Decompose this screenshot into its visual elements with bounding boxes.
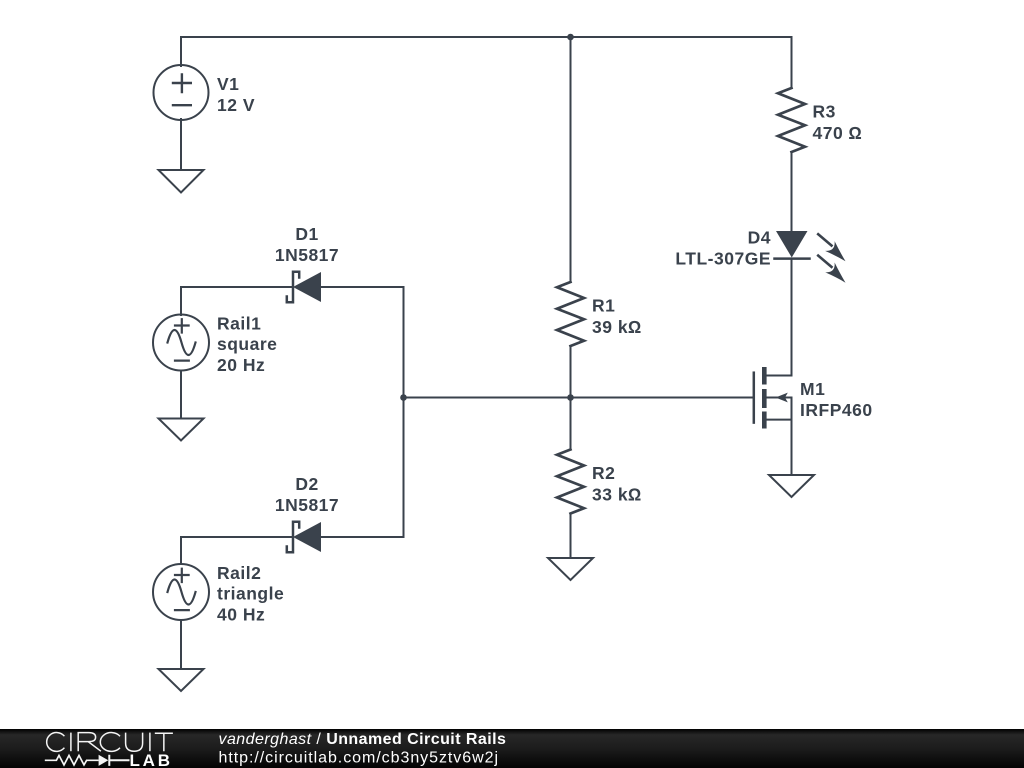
wire LED cathode to M1 drain	[767, 260, 792, 376]
label Rail1 value	[217, 314, 277, 376]
resistor R3	[778, 88, 805, 152]
label M1 value	[800, 379, 873, 420]
wire gate rail from node A to M1 gate	[404, 397, 754, 399]
label V1 value	[217, 74, 255, 115]
svg-text:vanderghast / Unnamed Circuit: vanderghast / Unnamed Circuit Rails	[219, 731, 507, 748]
svg-text:12 V: 12 V	[217, 95, 255, 115]
diode D1 (schottky)	[287, 272, 321, 302]
label R2 value	[592, 463, 642, 505]
diode D2 (schottky)	[287, 522, 321, 552]
label Rail2 value	[217, 563, 284, 625]
svg-text:D1: D1	[295, 224, 318, 244]
svg-text:39 kΩ: 39 kΩ	[592, 317, 642, 337]
ground below V1	[159, 170, 204, 193]
resistor R2	[557, 450, 584, 514]
svg-text:D4: D4	[748, 227, 771, 247]
svg-text:33 kΩ: 33 kΩ	[592, 485, 642, 505]
voltage source Rail1	[153, 315, 209, 371]
label D1 value	[275, 224, 339, 265]
svg-text:triangle: triangle	[217, 584, 284, 604]
wire R3 top lead	[791, 37, 793, 88]
svg-text:M1: M1	[800, 379, 825, 399]
svg-text:IRFP460: IRFP460	[800, 400, 873, 420]
svg-text:40 Hz: 40 Hz	[217, 605, 265, 625]
node junction top rail / R1	[567, 34, 574, 41]
wire vertical D1/D2 to gate rail	[403, 287, 405, 537]
wire R2 bottom lead	[570, 514, 572, 559]
svg-text:square: square	[217, 334, 277, 354]
svg-text:R2: R2	[592, 463, 615, 483]
node junction gate rail / R1 R2	[567, 394, 574, 401]
label R3 value	[813, 102, 863, 144]
svg-text:470 Ω: 470 Ω	[813, 123, 863, 143]
wire R1 bottom lead	[570, 346, 572, 398]
svg-text:20 Hz: 20 Hz	[217, 355, 265, 375]
svg-text:1N5817: 1N5817	[275, 495, 339, 515]
wire D2 cathode to node A	[321, 536, 404, 538]
wire Rail2 bottom lead	[180, 620, 182, 669]
svg-text:V1: V1	[217, 74, 239, 94]
wire top rail from V1 to R3	[181, 36, 792, 38]
wire Rail1 to D1 anode	[181, 286, 293, 288]
svg-text:Rail2: Rail2	[217, 563, 261, 583]
ground below R2	[548, 558, 593, 580]
label R1 value	[592, 296, 642, 338]
svg-text:LTL-307GE: LTL-307GE	[675, 248, 771, 268]
wire V1 top lead	[180, 37, 182, 66]
ground below Rail2	[159, 669, 204, 691]
svg-text:D2: D2	[295, 474, 318, 494]
svg-text:LAB: LAB	[130, 751, 173, 768]
wire V1 bottom lead	[180, 119, 182, 170]
label D4 value	[675, 227, 771, 268]
voltage source Rail2	[153, 564, 209, 620]
wire Rail2 top lead	[180, 537, 182, 564]
wire Rail1 bottom lead	[180, 371, 182, 419]
wire R1 top lead	[570, 37, 572, 282]
svg-text:1N5817: 1N5817	[275, 245, 339, 265]
CircuitLab logo diode	[99, 755, 109, 766]
label D2 value	[275, 474, 339, 515]
svg-text:Rail1: Rail1	[217, 314, 261, 334]
svg-text:R3: R3	[813, 102, 836, 122]
voltage source V1	[154, 65, 209, 120]
wire D1 cathode to node A	[321, 286, 404, 288]
wire Rail1 top lead	[180, 287, 182, 315]
svg-text:http://circuitlab.com/cb3ny5zt: http://circuitlab.com/cb3ny5ztv6w2j	[219, 750, 499, 767]
svg-text:R1: R1	[592, 296, 615, 316]
transistor M1	[754, 367, 792, 475]
wire Rail2 to D2 anode	[181, 536, 293, 538]
CircuitLab logo resistor zigzag	[45, 755, 99, 765]
wire R3 bottom lead	[791, 152, 793, 232]
CircuitLab logo wordmark CIRCUIT (hand drawn thin letters)	[47, 733, 173, 752]
ground below Rail1	[159, 419, 204, 441]
resistor R1	[557, 282, 584, 346]
wire R2 top lead	[570, 398, 572, 450]
LED D4	[775, 231, 846, 283]
footer bar	[0, 729, 1024, 768]
ground below M1	[769, 475, 814, 497]
node junction gate rail / D1 D2	[400, 394, 407, 401]
